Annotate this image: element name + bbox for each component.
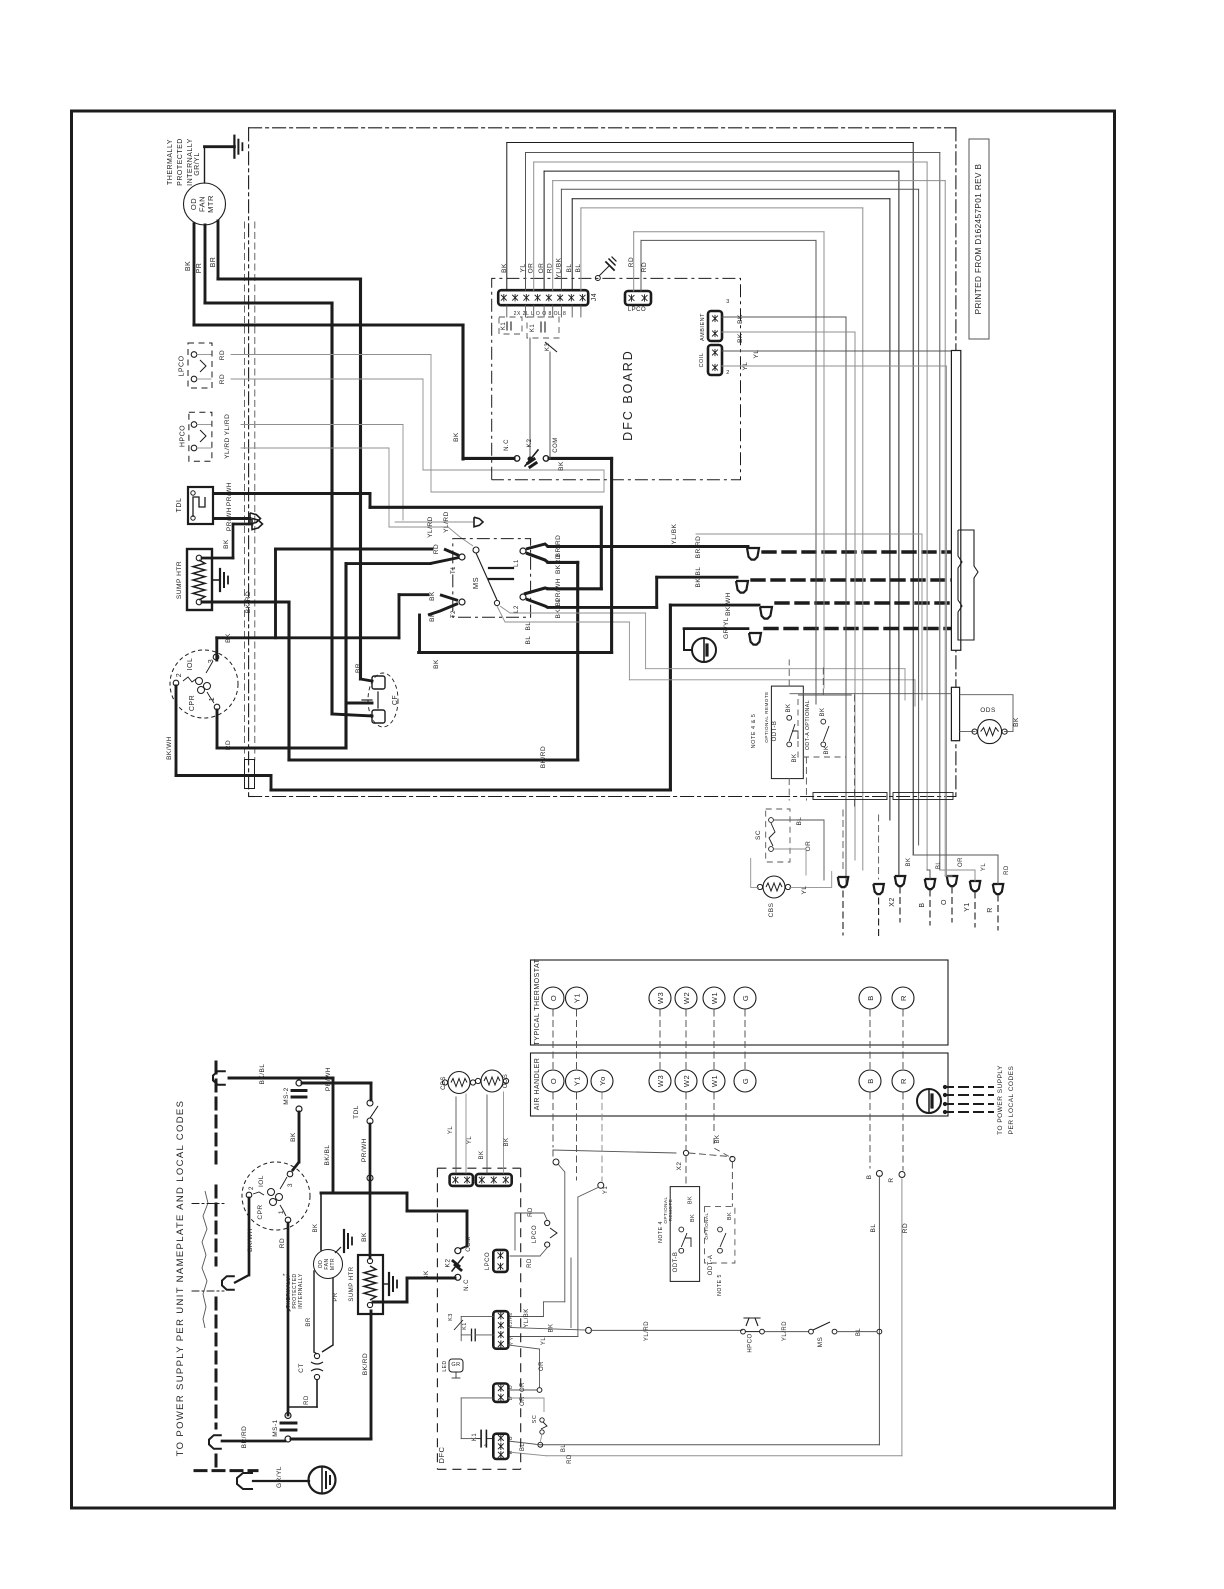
svg-text:*: * <box>283 1274 286 1280</box>
svg-text:HPCO: HPCO <box>747 1333 753 1352</box>
svg-text:MS-1: MS-1 <box>272 1419 279 1437</box>
svg-text:OR: OR <box>520 1396 526 1406</box>
svg-text:BK: BK <box>185 261 192 271</box>
svg-text:ODT-A: ODT-A <box>708 1255 714 1276</box>
svg-text:R: R <box>888 1177 895 1182</box>
svg-text:PROTECTED: PROTECTED <box>177 138 184 186</box>
svg-text:BK: BK <box>820 707 826 716</box>
svg-text:BL: BL <box>525 622 532 631</box>
svg-text:BK: BK <box>690 1214 696 1222</box>
svg-text:BK: BK <box>479 1150 485 1159</box>
svg-text:BK: BK <box>433 659 440 669</box>
svg-text:DFC BOARD: DFC BOARD <box>621 349 635 441</box>
svg-text:YL: YL <box>448 1126 454 1135</box>
svg-text:ODS: ODS <box>980 707 996 714</box>
svg-text:BL: BL <box>561 1444 567 1453</box>
svg-text:O: O <box>508 1385 514 1389</box>
svg-text:X2: X2 <box>676 1162 683 1171</box>
svg-text:OR: OR <box>538 263 545 274</box>
svg-text:BK: BK <box>549 1323 555 1332</box>
svg-text:W2: W2 <box>682 1075 691 1087</box>
svg-text:K1: K1 <box>530 324 536 333</box>
svg-text:OR: OR <box>958 857 964 867</box>
svg-text:LPCO: LPCO <box>179 355 186 376</box>
svg-text:OR: OR <box>520 1382 526 1392</box>
svg-text:R: R <box>987 907 994 913</box>
svg-text:BK: BK <box>737 333 744 343</box>
svg-text:CBS: CBS <box>441 1076 447 1090</box>
svg-text:J4: J4 <box>591 293 598 301</box>
svg-text:TO POWER SUPPLY PER UNIT NAMEP: TO POWER SUPPLY PER UNIT NAMEPLATE AND L… <box>175 1100 186 1457</box>
svg-text:RD: RD <box>628 257 635 267</box>
svg-text:SUMP HTR: SUMP HTR <box>176 561 183 599</box>
svg-text:N.C: N.C <box>504 439 510 451</box>
svg-text:2: 2 <box>248 1186 255 1190</box>
svg-text:N.C: N.C <box>464 1279 470 1291</box>
svg-text:INTERNALLY: INTERNALLY <box>187 138 194 186</box>
svg-text:MTR: MTR <box>330 1258 336 1270</box>
svg-text:BK/RD: BK/RD <box>245 591 252 613</box>
svg-text:G: G <box>741 995 750 1001</box>
svg-text:RD: RD <box>304 1395 310 1405</box>
svg-text:MS: MS <box>471 577 480 589</box>
svg-text:Y Y: Y Y <box>509 1337 514 1346</box>
svg-text:RD: RD <box>433 544 440 554</box>
svg-text:NOTE 5: NOTE 5 <box>717 1274 723 1296</box>
svg-text:YL/RD: YL/RD <box>782 1321 788 1341</box>
svg-text:1: 1 <box>278 1210 285 1214</box>
svg-text:K1: K1 <box>501 322 507 331</box>
svg-text:BR: BR <box>355 663 362 673</box>
svg-text:Y1: Y1 <box>573 1076 582 1086</box>
svg-text:BK/BL: BK/BL <box>324 1145 331 1166</box>
svg-text:W3: W3 <box>656 1075 665 1087</box>
svg-text:BL: BL <box>870 1224 877 1233</box>
svg-text:R: R <box>899 1078 908 1084</box>
svg-text:TYPICAL THERMOSTAT: TYPICAL THERMOSTAT <box>534 958 541 1045</box>
svg-text:BK: BK <box>737 314 744 324</box>
svg-text:B: B <box>866 1078 875 1084</box>
svg-text:OPTIONAL: OPTIONAL <box>704 1212 709 1239</box>
svg-text:BK: BK <box>688 1196 694 1204</box>
svg-text:BK/RD: BK/RD <box>540 746 547 768</box>
svg-text:BL: BL <box>856 1328 862 1337</box>
svg-text:T2: T2 <box>451 610 457 618</box>
svg-text:Yo: Yo <box>598 1076 607 1086</box>
svg-text:ODT-B: ODT-B <box>673 1252 679 1273</box>
svg-text:O: O <box>549 1078 558 1084</box>
svg-text:Y1: Y1 <box>964 902 971 912</box>
svg-text:MTR: MTR <box>206 195 215 213</box>
svg-text:L1: L1 <box>514 559 520 567</box>
svg-text:BK: BK <box>786 703 792 712</box>
svg-text:PR/WH: PR/WH <box>325 1067 332 1091</box>
svg-text:PRINTED FROM D162457P01 REV B: PRINTED FROM D162457P01 REV B <box>974 163 983 314</box>
svg-text:BK: BK <box>558 461 565 471</box>
svg-text:B: B <box>866 1175 873 1180</box>
svg-text:YL/RD: YL/RD <box>224 437 231 459</box>
svg-text:RD: RD <box>641 262 648 272</box>
svg-text:GR/YL: GR/YL <box>194 152 201 176</box>
svg-text:BK: BK <box>223 539 230 549</box>
svg-text:BR: BR <box>306 1317 312 1327</box>
svg-text:W1: W1 <box>710 1075 719 1087</box>
svg-text:K3: K3 <box>448 1313 454 1321</box>
svg-text:W2: W2 <box>682 992 691 1004</box>
svg-text:TO POWER SUPPLY: TO POWER SUPPLY <box>997 1065 1004 1135</box>
svg-text:3: 3 <box>726 299 730 305</box>
svg-text:BR/RD: BR/RD <box>555 535 562 558</box>
svg-text:RD: RD <box>527 1258 533 1268</box>
svg-text:TDL: TDL <box>353 1105 360 1119</box>
svg-text:BK/RD: BK/RD <box>362 1353 369 1375</box>
svg-text:OR: OR <box>528 263 535 274</box>
svg-text:SUMP HTR: SUMP HTR <box>349 1266 355 1301</box>
svg-text:BK: BK <box>792 753 798 762</box>
svg-text:YL/RD: YL/RD <box>644 1321 650 1341</box>
svg-text:BR/RD: BR/RD <box>695 536 702 559</box>
svg-text:K2: K2 <box>445 1259 452 1268</box>
svg-text:AMBIENT: AMBIENT <box>700 313 706 341</box>
svg-text:YL: YL <box>541 1337 547 1346</box>
svg-text:O: O <box>941 899 948 905</box>
svg-text:YL/RD: YL/RD <box>443 511 450 533</box>
svg-text:BK: BK <box>225 633 232 643</box>
svg-text:BK/BL: BK/BL <box>259 1064 266 1085</box>
svg-text:ODT-A OPTIONAL: ODT-A OPTIONAL <box>805 700 811 750</box>
svg-text:Y1: Y1 <box>573 993 582 1003</box>
svg-text:B: B <box>508 1436 514 1440</box>
svg-text:GR/YL: GR/YL <box>723 617 730 639</box>
svg-text:BK: BK <box>429 591 436 601</box>
svg-text:COIL: COIL <box>699 353 705 368</box>
svg-text:RD: RD <box>279 1238 286 1248</box>
svg-text:W3: W3 <box>656 992 665 1004</box>
svg-text:DFC: DFC <box>437 1446 446 1463</box>
svg-text:K1: K1 <box>462 1322 468 1330</box>
svg-text:BK: BK <box>824 745 830 754</box>
svg-text:YL: YL <box>753 350 760 359</box>
svg-text:G: G <box>741 1078 750 1084</box>
svg-text:ODS: ODS <box>503 1074 509 1089</box>
svg-text:W1: W1 <box>710 992 719 1004</box>
svg-text:CPR: CPR <box>189 695 196 711</box>
svg-text:BK: BK <box>727 1212 733 1220</box>
svg-text:BK: BK <box>1013 717 1020 727</box>
svg-text:ODT-B: ODT-B <box>772 721 778 742</box>
svg-text:YL: YL <box>981 863 987 872</box>
svg-text:R: R <box>508 1450 514 1454</box>
svg-text:T1: T1 <box>451 566 457 574</box>
svg-text:BK: BK <box>290 1132 297 1142</box>
svg-text:OR: OR <box>539 1361 545 1371</box>
svg-text:IOL: IOL <box>258 1175 265 1187</box>
svg-text:BL: BL <box>525 636 532 645</box>
svg-text:RD: RD <box>219 350 226 360</box>
svg-text:LPCO: LPCO <box>532 1225 538 1243</box>
svg-text:BK: BK <box>501 263 508 273</box>
svg-text:NOTE 4 & 5: NOTE 4 & 5 <box>751 714 757 749</box>
svg-text:B: B <box>866 995 875 1001</box>
svg-text:RD: RD <box>547 263 554 273</box>
svg-text:YL: YL <box>742 362 749 371</box>
svg-text:YL/BK: YL/BK <box>555 257 562 278</box>
svg-text:GR: GR <box>451 1362 460 1368</box>
svg-text:K1: K1 <box>472 1433 478 1442</box>
svg-text:Y1: Y1 <box>603 1186 609 1195</box>
svg-text:MS: MS <box>817 1336 824 1347</box>
svg-text:1: 1 <box>209 697 216 701</box>
svg-text:BKRD: BKRD <box>555 554 562 574</box>
svg-text:CPR: CPR <box>257 1204 264 1219</box>
svg-text:PR/WH: PR/WH <box>361 1138 368 1162</box>
svg-text:RD: RD <box>567 1454 573 1464</box>
svg-text:CBS: CBS <box>768 902 775 917</box>
svg-text:BK: BK <box>906 857 912 866</box>
svg-text:CF: CF <box>392 695 399 705</box>
svg-text:BL: BL <box>566 264 573 273</box>
svg-text:BL: BL <box>796 817 803 826</box>
svg-text:LPCO: LPCO <box>485 1252 491 1270</box>
svg-text:BK/WH: BK/WH <box>725 592 732 616</box>
svg-text:YL: YL <box>467 1136 473 1145</box>
svg-text:BL: BL <box>575 264 582 273</box>
svg-text:MS-2: MS-2 <box>283 1087 290 1105</box>
svg-text:YL: YL <box>801 886 808 895</box>
svg-text:O: O <box>549 995 558 1001</box>
svg-text:X2: X2 <box>889 897 896 907</box>
svg-text:2: 2 <box>176 673 183 677</box>
svg-text:A: A <box>483 1443 488 1447</box>
svg-text:GR/YL: GR/YL <box>276 1466 283 1488</box>
svg-text:BR: BR <box>210 257 217 268</box>
svg-text:YL: YL <box>520 264 527 273</box>
svg-text:IOL: IOL <box>187 658 194 671</box>
svg-text:K3: K3 <box>545 343 551 352</box>
svg-text:RD: RD <box>902 1223 909 1233</box>
svg-text:BK: BK <box>715 1134 721 1143</box>
svg-text:*: * <box>288 1309 291 1316</box>
svg-text:HPCO: HPCO <box>180 425 187 447</box>
svg-text:PR: PR <box>196 263 203 274</box>
svg-text:COM: COM <box>553 437 559 453</box>
svg-text:RD: RD <box>219 374 226 384</box>
svg-text:REMOTE: REMOTE <box>668 1199 673 1222</box>
svg-text:CT: CT <box>298 1363 305 1373</box>
svg-text:LPCO: LPCO <box>628 307 646 313</box>
svg-text:X2/FS: X2/FS <box>508 1312 513 1327</box>
svg-text:THERMALLY: THERMALLY <box>167 139 174 185</box>
svg-text:YL/RD: YL/RD <box>224 414 231 436</box>
svg-text:BK/BL: BK/BL <box>695 567 702 588</box>
svg-text:BK/BL: BK/BL <box>555 598 562 619</box>
svg-text:SC: SC <box>755 830 762 840</box>
svg-text:R: R <box>899 995 908 1001</box>
svg-text:BK: BK <box>361 1232 368 1242</box>
svg-text:YL/RD: YL/RD <box>427 516 434 538</box>
svg-text:3: 3 <box>287 1183 294 1187</box>
svg-text:BR/RD: BR/RD <box>241 1426 248 1449</box>
svg-text:LED: LED <box>442 1360 448 1371</box>
svg-text:RD: RD <box>225 740 232 750</box>
svg-text:PR: PR <box>333 1292 339 1302</box>
svg-text:TDL: TDL <box>176 498 183 513</box>
svg-text:BK: BK <box>453 432 460 442</box>
svg-text:SC: SC <box>532 1415 538 1424</box>
svg-text:BK/WH: BK/WH <box>166 736 173 760</box>
svg-text:BK: BK <box>504 1137 510 1146</box>
svg-text:BK: BK <box>423 1270 430 1280</box>
svg-text:L2: L2 <box>514 605 520 613</box>
svg-text:RD: RD <box>1004 865 1010 875</box>
svg-text:BK: BK <box>313 1223 319 1232</box>
svg-text:RD: RD <box>528 1207 534 1217</box>
svg-text:3: 3 <box>208 659 215 663</box>
svg-text:PER LOCAL CODES: PER LOCAL CODES <box>1008 1066 1015 1135</box>
svg-text:2X 2L L O O 8 OL 8: 2X 2L L O O 8 OL 8 <box>514 311 567 317</box>
svg-text:AIR HANDLER: AIR HANDLER <box>534 1058 541 1111</box>
svg-text:2: 2 <box>726 370 730 376</box>
svg-text:YL/BK: YL/BK <box>671 523 678 544</box>
svg-text:BL: BL <box>936 861 942 870</box>
svg-text:B: B <box>919 902 926 907</box>
svg-text:INTERNALLY: INTERNALLY <box>298 1273 304 1309</box>
svg-text:YL/BK: YL/BK <box>524 1308 530 1328</box>
svg-text:OPTIONAL REMOTE: OPTIONAL REMOTE <box>764 691 769 743</box>
